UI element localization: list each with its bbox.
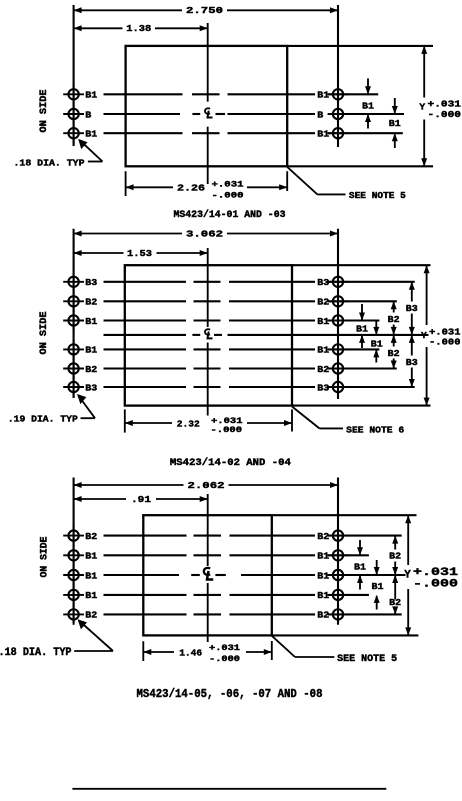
svg-text:+.031: +.031 (209, 643, 240, 653)
svg-text:MS423/14-01 AND -03: MS423/14-01 AND -03 (174, 209, 286, 221)
svg-text:B1: B1 (356, 323, 368, 334)
svg-text:B3: B3 (85, 382, 97, 393)
svg-text:3.062: 3.062 (186, 228, 223, 239)
svg-text:.91: .91 (131, 494, 151, 505)
extension line right hole column view 3 (337, 478, 339, 625)
centerline row (terminal B) view 1 (104, 113, 181, 115)
svg-text:B2: B2 (317, 364, 329, 375)
spacing dimension B1 upper view 2 (361, 304, 363, 320)
svg-text:B1: B1 (317, 90, 329, 101)
svg-text:SEE NOTE 6: SEE NOTE 6 (346, 424, 404, 435)
leader SEE NOTE 5 view 1 (287, 167, 317, 194)
dimension 3.062 view 2 (74, 228, 338, 239)
svg-text:+.031: +.031 (212, 180, 244, 190)
svg-text:+.031: +.031 (413, 567, 458, 579)
hole right row 1 view 3 (328, 525, 349, 546)
hole left row 3 view 2 (63, 310, 84, 331)
vertical centerline view 3 (207, 494, 209, 566)
hole left row 2 view 2 (63, 291, 84, 312)
hole left row 1 view 1 (63, 84, 84, 105)
leader SEE NOTE 6 view 2 (292, 407, 319, 429)
body bottom edge extended view 3 (272, 634, 419, 636)
svg-text:B1: B1 (85, 551, 97, 562)
centerline symbol view 1 (205, 108, 213, 117)
svg-text:.19 DIA. TYP: .19 DIA. TYP (8, 414, 78, 425)
overall dimension Y +.031/-.000 view 2 (426, 265, 428, 325)
centerline symbol view 3 (204, 568, 213, 580)
svg-text:B1: B1 (317, 129, 329, 140)
terminal row 3 view 1 (104, 132, 183, 134)
spacing dimension B2 lower view 2 (391, 335, 397, 343)
extension line right hole column view 1 (337, 5, 339, 147)
svg-text:B1: B1 (371, 339, 383, 350)
extension line left hole column view 1 (73, 5, 75, 146)
svg-text:B: B (85, 109, 91, 120)
svg-text:2.750: 2.750 (186, 5, 223, 16)
connector body outline view 3 (143, 515, 271, 635)
connector body outline view 1 (126, 46, 288, 166)
hole left row 4 view 2 (63, 339, 84, 360)
spacing dimension B3 upper view 2 (409, 282, 415, 290)
dimension 1.38 view 1 (74, 23, 208, 34)
svg-text:B2: B2 (85, 531, 97, 542)
svg-text:B2: B2 (85, 610, 97, 621)
svg-text:1.53: 1.53 (127, 248, 152, 259)
svg-text:ON SIDE: ON SIDE (39, 312, 50, 355)
svg-text:B1: B1 (317, 345, 329, 356)
hole right row 4 view 3 (328, 585, 349, 606)
hole right row 2 view 3 (328, 545, 349, 566)
hole right row 3 view 3 (328, 565, 349, 586)
svg-text:B3: B3 (317, 382, 329, 393)
svg-text:Y: Y (419, 102, 425, 113)
vertical centerline view 1 (207, 23, 209, 102)
svg-text:MS423/14-02 AND -04: MS423/14-02 AND -04 (170, 457, 291, 469)
svg-text:-.000: -.000 (429, 337, 461, 348)
terminal row 6 view 2 (104, 386, 187, 388)
bottom horizontal rule (72, 788, 386, 790)
hole right row 5 view 3 (328, 604, 349, 625)
hole left row 6 view 2 (63, 377, 84, 398)
hole right row 1 view 2 (328, 271, 349, 292)
svg-text:-.000: -.000 (413, 579, 458, 591)
svg-text:B2: B2 (85, 364, 97, 375)
overall dimension Y +.031/-.000 view 1 (423, 46, 425, 98)
hole left row 5 view 2 (63, 358, 84, 379)
svg-text:B1: B1 (85, 570, 97, 581)
terminal row 5 view 2 (104, 367, 187, 369)
svg-text:1.38: 1.38 (126, 23, 151, 34)
svg-text:-.000: -.000 (209, 654, 240, 664)
svg-text:B1: B1 (317, 551, 329, 562)
svg-text:B2: B2 (317, 610, 329, 621)
dimension 2.750 view 1 (74, 5, 338, 16)
svg-text:SEE NOTE 5: SEE NOTE 5 (337, 654, 397, 665)
terminal row 1 view 1 (104, 93, 183, 95)
svg-text:-.000: -.000 (428, 109, 462, 120)
svg-text:B1: B1 (317, 590, 329, 601)
svg-text:B1: B1 (372, 581, 384, 592)
spacing dimension B2 lower view 3 (392, 575, 398, 583)
centerline row (terminal B1) view 3 (104, 574, 180, 576)
svg-text:B1: B1 (317, 316, 329, 327)
dimension 2.32 +.031/-.000 view 2 (125, 422, 172, 424)
spacing dimension B1 upper view 3 (359, 540, 361, 554)
svg-text:B3: B3 (317, 277, 329, 288)
svg-text:B3: B3 (406, 357, 418, 368)
svg-text:2.26: 2.26 (177, 182, 205, 193)
hole right row 2 view 1 (328, 104, 349, 125)
spacing dimension B1 lower view 1 (394, 98, 396, 113)
hole right row 3 view 1 (328, 123, 349, 144)
hole right row 5 view 2 (328, 358, 349, 379)
svg-text:.18 DIA. TYP: .18 DIA. TYP (0, 647, 72, 659)
hole left row 1 view 3 (63, 525, 84, 546)
extension lines for 1.46 dimension view 3 (142, 641, 144, 661)
dimension 2.062 view 3 (74, 480, 338, 491)
body bottom edge extended view 2 (292, 405, 431, 407)
svg-text:B1: B1 (85, 590, 97, 601)
svg-text:Y: Y (404, 570, 411, 582)
svg-text:B1: B1 (389, 118, 401, 129)
svg-text:-.000: -.000 (211, 425, 243, 435)
svg-text:B3: B3 (85, 277, 97, 288)
hole left row 3 view 3 (63, 565, 84, 586)
spacing dimension B1 lower view 2 (375, 322, 377, 334)
hole right row 6 view 2 (328, 377, 349, 398)
spacing dimension B1 lower view 3 (376, 560, 378, 574)
svg-text:B1: B1 (85, 345, 97, 356)
svg-text:2.32: 2.32 (177, 418, 200, 429)
spacing dimension B2 upper view 3 (392, 536, 398, 544)
svg-text:B2: B2 (388, 314, 400, 325)
terminal row 1 view 2 (104, 281, 187, 283)
svg-text:B1: B1 (85, 129, 97, 140)
svg-text:B: B (317, 109, 323, 120)
svg-text:+.031: +.031 (428, 99, 462, 110)
svg-text:B2: B2 (85, 297, 97, 308)
svg-text:B1: B1 (85, 90, 97, 101)
svg-text:B1: B1 (362, 100, 374, 111)
dimension .91 view 3 (74, 494, 208, 505)
centerline row view 2 (104, 334, 187, 336)
svg-text:B1: B1 (354, 561, 366, 572)
extension lines for 2.26 dimension view 1 (125, 171, 127, 196)
terminal row 2 view 3 (104, 554, 187, 556)
body top edge extended view 2 (292, 264, 431, 266)
spacing dimension B2 upper view 2 (391, 301, 397, 309)
svg-text:-.000: -.000 (212, 191, 244, 201)
terminal row 1 view 3 (104, 535, 187, 537)
leader SEE NOTE 5 view 3 (272, 636, 295, 657)
svg-text:ON SIDE: ON SIDE (39, 90, 50, 133)
hole left row 5 view 3 (63, 604, 84, 625)
svg-text:MS423/14-05, -06, -07 AND -08: MS423/14-05, -06, -07 AND -08 (137, 688, 323, 701)
svg-text:.18 DIA. TYP: .18 DIA. TYP (14, 158, 85, 169)
svg-text:SEE NOTE 5: SEE NOTE 5 (349, 190, 406, 201)
spacing dimension B1 upper view 1 (367, 78, 369, 93)
centerline symbol view 2 (205, 329, 213, 338)
terminal row 4 view 3 (104, 594, 187, 596)
svg-text:B3: B3 (406, 303, 418, 314)
svg-text:B2: B2 (388, 348, 400, 359)
svg-text:1.46: 1.46 (179, 647, 202, 658)
hole right row 4 view 2 (328, 339, 349, 360)
dimension 2.26 +.031/-.000 view 1 (126, 186, 173, 188)
svg-text:ON SIDE: ON SIDE (40, 537, 51, 578)
svg-text:B1: B1 (317, 570, 329, 581)
hole left row 2 view 3 (63, 545, 84, 566)
connector body outline view 2 (125, 265, 292, 405)
body top edge extended (ext line for Y dim) view 1 (287, 45, 433, 47)
hole left row 2 view 1 (63, 104, 84, 125)
svg-text:2.062: 2.062 (188, 480, 225, 491)
spacing dimension B3 lower view 2 (409, 335, 415, 343)
terminal row 3 view 2 (104, 319, 187, 321)
extension line right hole column view 2 (337, 229, 339, 399)
extension line left hole column view 2 (73, 229, 75, 398)
svg-text:B1: B1 (85, 316, 97, 327)
dimension 1.46 +.031/-.000 view 3 (143, 651, 174, 653)
extension lines for 2.32 dimension view 2 (124, 409, 126, 432)
hole left row 1 view 2 (63, 271, 84, 292)
svg-text:B2: B2 (317, 297, 329, 308)
terminal row 5 view 3 (104, 613, 187, 615)
vertical centerline view 2 (207, 248, 209, 327)
extension line left hole column view 3 (73, 478, 75, 624)
svg-text:B2: B2 (317, 531, 329, 542)
hole left row 3 view 1 (63, 123, 84, 144)
overall dimension Y +.031/-.000 view 3 (407, 515, 409, 565)
terminal row 4 view 2 (104, 348, 187, 350)
hole right row 3 view 2 (328, 310, 349, 331)
terminal row 2 view 2 (104, 300, 187, 302)
svg-text:B2: B2 (389, 551, 401, 562)
hole right row 1 view 1 (328, 84, 349, 105)
hole left row 4 view 3 (63, 585, 84, 606)
body bottom edge extended view 1 (287, 165, 433, 167)
body top edge extended view 3 (272, 514, 417, 516)
hole right row 2 view 2 (328, 291, 349, 312)
svg-text:Y: Y (421, 330, 427, 341)
dimension 1.53 view 2 (74, 248, 208, 259)
